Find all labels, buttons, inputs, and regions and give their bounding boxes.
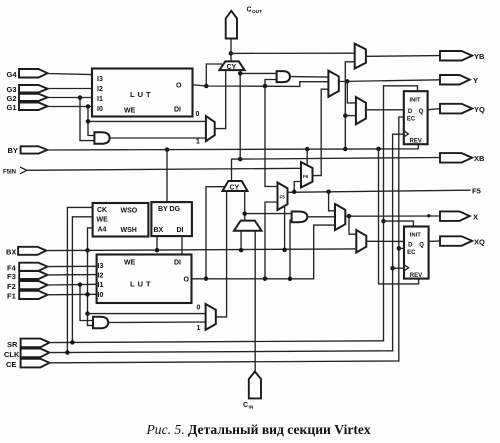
- svg-text:Q: Q: [419, 109, 424, 115]
- wire YB line: [366, 55, 440, 58]
- svg-text:DI: DI: [174, 107, 181, 114]
- wire buffer left leg to BX line: [240, 231, 242, 250]
- wire G2 to LUT I1: [48, 97, 93, 99]
- wire carry jog CY2 top: [232, 159, 241, 181]
- wire F1 to LUT2 I0: [48, 293, 97, 296]
- junction on F2 line: [78, 282, 83, 287]
- LUT U2 (F-LUT): [97, 255, 192, 304]
- svg-text:A4: A4: [98, 227, 107, 234]
- mux M1 (DI select G): [206, 116, 215, 141]
- output arrow COUT: [226, 7, 262, 39]
- wire F5IN line to F6 mux: [27, 168, 301, 170]
- svg-text:I2: I2: [98, 273, 104, 280]
- AND gate XOR2 (carry xor F): [292, 212, 308, 223]
- svg-text:I3: I3: [97, 76, 103, 83]
- mux M5 (X output mux): [335, 204, 345, 230]
- wire CE riser: [399, 117, 404, 361]
- junction Y tap: [345, 79, 350, 84]
- input arrow G4: [7, 69, 48, 79]
- wire G2 drop to AND gate: [80, 98, 94, 141]
- junction O2 / F5 riser: [263, 276, 268, 281]
- wire CY1 out to COUT: [230, 39, 232, 62]
- mux M6 (XQ D mux): [356, 230, 366, 253]
- output arrow YQ: [440, 104, 485, 114]
- input arrow G2: [7, 94, 48, 103]
- svg-text:INIT: INIT: [410, 98, 421, 104]
- wire FF1 Q to YQ: [428, 109, 440, 110]
- wire G3 to LUT I2: [48, 88, 93, 90]
- AND gate A2 (write F): [93, 317, 108, 329]
- svg-text:I3: I3: [98, 263, 104, 270]
- wire LUT1 O line: [193, 82, 329, 87]
- junction on X line: [427, 214, 430, 217]
- wire G1 drop to DI-mux 0 and AND gate: [88, 107, 94, 136]
- svg-text:EC: EC: [407, 116, 416, 122]
- svg-text:REV: REV: [410, 139, 422, 145]
- svg-text:WSO: WSO: [121, 208, 138, 215]
- flip-flop FF2 (XQ): [404, 227, 429, 279]
- wire CE line: [49, 361, 398, 363]
- input arrow F1: [7, 291, 48, 301]
- wire COUT tap to YB mux: [231, 52, 355, 54]
- input arrow F3: [7, 271, 48, 281]
- svg-text:F2: F2: [7, 282, 16, 291]
- svg-text:Рис. 5. Детальный вид секции V: Рис. 5. Детальный вид секции Virtex: [146, 422, 371, 437]
- junction O / F5 riser: [263, 84, 268, 89]
- wire tap to YQ mux lower input: [345, 115, 356, 117]
- input arrow G3: [7, 85, 48, 94]
- svg-text:X: X: [473, 213, 478, 222]
- wire AND2 out to mux2 input 1: [108, 321, 205, 324]
- svg-text:WE: WE: [97, 217, 109, 224]
- wire XOR2 out to X mux: [307, 216, 335, 218]
- svg-text:0: 0: [197, 305, 201, 312]
- wire buffer right leg from CIN: [254, 231, 256, 372]
- svg-text:XQ: XQ: [474, 238, 485, 247]
- wire F6 lower input from F5 line: [294, 182, 301, 192]
- svg-text:1: 1: [196, 139, 200, 146]
- mux M2 (Y output mux): [328, 71, 338, 97]
- svg-text:BX: BX: [154, 227, 164, 234]
- junction BY / riser: [343, 147, 348, 152]
- wire A4 riser into AND2: [88, 325, 94, 327]
- wire F5mux lower input riser from LUT2 O: [265, 202, 278, 279]
- wire mux1 out riser to CY1: [215, 70, 226, 129]
- svg-text:BX: BX: [6, 248, 16, 257]
- output arrow YB: [440, 51, 485, 61]
- junction carry / XOR2 tap: [242, 211, 247, 216]
- svg-text:G4: G4: [7, 70, 18, 79]
- wire CLK riser: [393, 134, 404, 351]
- svg-text:0: 0: [196, 111, 200, 118]
- svg-text:Y: Y: [473, 76, 478, 85]
- output arrow XQ: [440, 236, 485, 246]
- svg-text:G2: G2: [7, 94, 17, 103]
- junction BY / REV drop: [376, 147, 381, 152]
- svg-text:SR: SR: [7, 340, 18, 349]
- carry-init buffer (trapezoid): [234, 221, 262, 231]
- junction on G2 line: [78, 95, 83, 100]
- AND gate A1 (write): [94, 132, 109, 144]
- svg-text:F5: F5: [472, 187, 481, 196]
- input arrow F4: [7, 263, 48, 273]
- svg-text:F5: F5: [280, 195, 286, 200]
- wire SR tap to FF2: [384, 221, 414, 226]
- wire CLK line: [49, 351, 392, 353]
- wire F5 tap down to X mux: [329, 192, 335, 211]
- output arrow Y: [440, 75, 478, 85]
- wire CY2 select: [206, 187, 225, 279]
- wire box2 DI pin to LUT2 DI: [181, 236, 183, 254]
- wire CE tap to FF2 EC: [399, 247, 404, 249]
- svg-text:OUT: OUT: [252, 9, 262, 15]
- svg-text:DI: DI: [177, 227, 184, 234]
- svg-text:I0: I0: [97, 106, 103, 113]
- wire BX line: [46, 249, 356, 251]
- svg-text:D: D: [408, 242, 413, 248]
- svg-text:O: O: [176, 83, 182, 90]
- wire CLK tap to FF2 clock: [393, 267, 404, 269]
- svg-text:CLK: CLK: [4, 350, 20, 359]
- wire CY2 right leg to buffer: [244, 191, 246, 221]
- wire mux2 input 0: [88, 313, 206, 315]
- wire FF2 Q to XQ: [429, 240, 440, 242]
- LUT U1 (G-LUT): [92, 69, 193, 117]
- mux M3 (YB output mux): [355, 44, 366, 69]
- svg-text:YB: YB: [474, 52, 485, 61]
- junction O / CY1 select: [204, 84, 209, 89]
- svg-text:XB: XB: [474, 154, 485, 163]
- svg-text:1: 1: [197, 325, 201, 332]
- junction COUT node: [229, 51, 234, 56]
- wire XOR2 upper input from carry tap: [245, 213, 292, 215]
- svg-text:LUT: LUT: [130, 90, 154, 99]
- wire AND A1 out to mux1 input 1: [110, 137, 206, 139]
- junction CLK / box1 CK riser: [65, 350, 70, 355]
- output arrow XB: [440, 153, 485, 163]
- svg-text:REV: REV: [410, 273, 422, 279]
- AND gate XOR1 (carry xor G): [277, 71, 290, 82]
- junction BY / F6 select: [305, 147, 310, 152]
- input arrow BY: [8, 146, 48, 155]
- svg-text:BY DG: BY DG: [158, 206, 181, 213]
- wire mux1 input 0: [88, 120, 206, 122]
- svg-text:CE: CE: [6, 360, 16, 369]
- wire BY riser to YB mux: [345, 62, 354, 149]
- mux M4 (YQ D mux): [356, 97, 366, 124]
- svg-text:I2: I2: [97, 86, 103, 93]
- wire F5 select from BX line: [284, 207, 286, 250]
- wire XQ mux out to FF2 D: [366, 240, 404, 242]
- junction G1 drop / mux0 line: [86, 119, 91, 124]
- wire F5mux upper input riser: [265, 86, 278, 187]
- svg-text:I0: I0: [98, 292, 104, 299]
- wire F4 to LUT2 I3: [48, 265, 97, 267]
- wire X tap down to XQ mux: [349, 216, 356, 234]
- junction carry mid / XB: [238, 157, 243, 162]
- junction CLK / FF2 clock: [390, 266, 395, 271]
- svg-text:O: O: [184, 277, 190, 284]
- junction BY / box2 tap: [165, 147, 170, 152]
- carry mux CY2: [223, 181, 248, 192]
- junction SR / FF2 tap: [381, 219, 386, 224]
- wire LUT2 O line: [192, 225, 336, 279]
- svg-text:WSH: WSH: [121, 227, 137, 234]
- junction SR / box1 WE riser: [70, 340, 75, 345]
- junction BX / buffer leg: [239, 248, 244, 253]
- junction BX / F5 select: [282, 248, 287, 253]
- wire carry chain CY2 to CY1: [239, 70, 241, 159]
- wire carry tap to XOR1 upper input: [240, 72, 276, 74]
- wire A4/BX riser taps: [85, 311, 90, 316]
- svg-text:C: C: [243, 402, 248, 409]
- input arrow CLK: [4, 349, 49, 359]
- wire SR riser: [384, 86, 418, 341]
- svg-text:BY: BY: [8, 146, 18, 155]
- wire F2 drop to AND2: [80, 285, 93, 321]
- flip-flop FF1 (YQ): [404, 91, 428, 144]
- svg-text:Q: Q: [419, 242, 424, 248]
- svg-text:I1: I1: [97, 96, 103, 103]
- junction on F1 line riser: [85, 292, 90, 297]
- wire box2 BX pin to BX line: [156, 236, 158, 250]
- wire A4 input from BX riser: [88, 228, 93, 326]
- wire Y line: [339, 80, 440, 82]
- svg-text:C: C: [247, 7, 252, 14]
- mux M7 (DI select F): [206, 304, 216, 330]
- svg-text:I1: I1: [98, 282, 104, 289]
- wire riser to AND XOR1 lower input: [265, 80, 277, 87]
- wire XOR2 lower input riser from LUT2 O: [290, 220, 292, 279]
- wire XB line: [240, 158, 440, 160]
- svg-text:DI: DI: [174, 260, 181, 267]
- svg-text:IN: IN: [249, 405, 254, 411]
- svg-text:CK: CK: [97, 207, 107, 214]
- svg-text:CY: CY: [227, 64, 237, 71]
- input arrow SR: [7, 339, 49, 349]
- svg-text:G1: G1: [7, 103, 17, 112]
- wire BY line: [47, 144, 418, 150]
- svg-text:CY: CY: [230, 185, 240, 192]
- wire CY1 select: [206, 64, 221, 86]
- svg-text:F1: F1: [7, 292, 16, 301]
- input chevron F5IN: [3, 167, 27, 175]
- svg-text:F6: F6: [303, 174, 309, 179]
- mux F5: [278, 183, 288, 211]
- junction X tap: [347, 214, 352, 219]
- wire G4 to LUT I3: [48, 74, 93, 75]
- junction CE / FF2 EC: [397, 246, 402, 251]
- carry mux CY1: [220, 61, 245, 71]
- junction carry tap to XOR1: [238, 71, 243, 76]
- junction F5 / X mux branch: [326, 189, 331, 194]
- wire F3 to LUT2 I2: [48, 274, 97, 276]
- wire BY tap to BY-DG box: [166, 150, 168, 203]
- wire F6 out riser to Y mux: [313, 89, 329, 175]
- wire SR line: [49, 341, 383, 343]
- junction BY riser / YQ mux tap: [343, 113, 348, 118]
- svg-text:YQ: YQ: [474, 105, 485, 114]
- input arrow G1: [7, 103, 48, 113]
- output arrow X: [440, 211, 478, 221]
- input arrow CE: [6, 359, 49, 369]
- wire Y tap down to YQ mux: [347, 81, 356, 103]
- wire X line: [345, 215, 440, 217]
- input arrow CIN: [243, 372, 261, 411]
- junction F5 / F6 branch: [292, 190, 297, 195]
- svg-text:LUT: LUT: [130, 280, 154, 289]
- wire XOR1 out to Y mux: [290, 76, 329, 79]
- wire G1 to LUT I0: [48, 106, 93, 108]
- svg-text:WE: WE: [124, 260, 136, 267]
- wire F5 output line: [288, 190, 471, 192]
- svg-text:G3: G3: [7, 85, 17, 94]
- mux F6: [301, 162, 313, 187]
- RAM control box (CK WE A4 / WSO WSH): [93, 203, 149, 237]
- wire mux2 out riser to CY2: [216, 191, 227, 317]
- junction O2 / XOR2 riser: [288, 277, 293, 282]
- input arrow F2: [7, 281, 48, 291]
- wire YQ mux out to FF1 D: [366, 109, 404, 111]
- svg-text:EC: EC: [407, 250, 416, 256]
- svg-text:INIT: INIT: [410, 233, 421, 239]
- wire F2 to LUT2 I1: [48, 283, 97, 286]
- junction BX / box2: [155, 248, 160, 253]
- dual-port box (BY DG / BX DI): [151, 202, 192, 236]
- svg-text:WE: WE: [124, 108, 136, 115]
- junction on G1 line: [86, 104, 91, 109]
- wire BY drop to FF2 REV: [379, 149, 419, 284]
- junction CY2 select / LUT2 O: [204, 276, 209, 281]
- wire F6 select: [306, 149, 308, 166]
- wire CK input from CLK riser: [67, 207, 92, 352]
- svg-text:D: D: [408, 109, 413, 115]
- svg-text:F5IN: F5IN: [3, 170, 16, 176]
- input arrow BX: [6, 247, 46, 257]
- junction BX / A4 riser: [85, 248, 90, 253]
- svg-text:F3: F3: [7, 272, 16, 281]
- wire WE input from SR riser: [72, 217, 92, 342]
